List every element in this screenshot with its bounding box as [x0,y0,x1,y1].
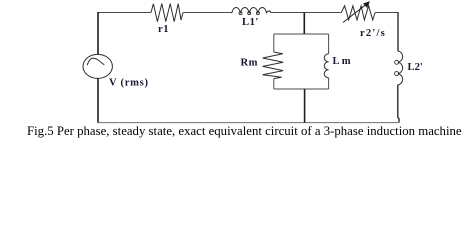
inductor L2' [398,51,403,85]
box bottom edge [274,88,329,90]
box top edge [274,33,329,35]
inductor L1' [232,8,271,14]
box right edge lower [328,78,330,89]
box left edge lower [273,79,275,89]
wire r2'/s to top-right corner [375,12,398,14]
sine symbol [87,58,104,65]
resistor r1 [151,4,183,22]
caption [27,124,467,139]
box left edge upper [273,34,275,52]
svg-text:L2': L2' [408,62,423,73]
resistor r2'/s [341,6,375,20]
source V (rms) [83,54,112,78]
box right edge upper [328,34,330,54]
svg-text:Lm: Lm [333,56,353,67]
svg-text:Rm: Rm [241,58,258,69]
left vertical wire lower [97,78,99,122]
left vertical wire upper [97,12,99,55]
right vertical wire upper [397,12,399,51]
bottom rail [97,122,398,124]
inductor Lm [324,54,328,78]
svg-text:r1: r1 [158,24,169,35]
svg-text:V (rms): V (rms) [109,78,149,89]
svg-text:L1': L1' [242,17,259,28]
middle bottom connector [304,89,306,123]
wire between r1 and L1' [183,12,232,14]
arrow of variable resistor r2'/s [343,5,366,23]
right vertical wire lower [398,85,399,123]
wire top-left horizontal [98,12,151,14]
svg-text:r2'/s: r2'/s [360,28,386,39]
wire between L1' and r2'/s [271,12,342,14]
middle top connector [303,13,305,35]
resistor Rm [263,52,284,79]
